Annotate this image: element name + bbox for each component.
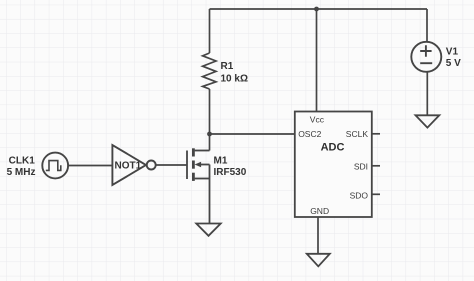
wire node to ADC OSC2 bbox=[210, 133, 295, 135]
svg-text:CLK1: CLK1 bbox=[9, 156, 36, 167]
ground below ADC bbox=[307, 254, 330, 266]
svg-text:V1: V1 bbox=[446, 47, 459, 58]
pin SDO stub bbox=[372, 193, 380, 195]
transistor M1 (NMOS IRF530) bbox=[187, 148, 210, 223]
svg-text:NOT1: NOT1 bbox=[115, 161, 142, 172]
node top rail to Vcc junction bbox=[314, 7, 319, 12]
svg-text:SCLK: SCLK bbox=[346, 129, 369, 139]
pin SCLK stub bbox=[372, 133, 380, 135]
svg-text:Vcc: Vcc bbox=[310, 115, 325, 125]
source V1 bbox=[411, 42, 441, 72]
svg-text:GND: GND bbox=[310, 206, 329, 216]
wire resistor top bbox=[209, 9, 211, 53]
svg-text:R1: R1 bbox=[221, 61, 234, 72]
ground below M1 bbox=[196, 224, 220, 236]
svg-text:SDO: SDO bbox=[350, 190, 369, 200]
wire V1 top bbox=[426, 9, 428, 42]
wire node to M1 drain bbox=[209, 134, 211, 151]
svg-text:M1: M1 bbox=[214, 156, 228, 167]
ground below V1 bbox=[416, 115, 440, 127]
wire Vcc pin bbox=[316, 9, 318, 112]
svg-text:5 V: 5 V bbox=[446, 58, 461, 69]
inverter NOT1 bbox=[112, 145, 146, 185]
op block ADC bbox=[295, 112, 372, 218]
svg-text:SDI: SDI bbox=[354, 161, 368, 171]
pin SDI stub bbox=[372, 165, 380, 167]
wire NOT1 to gate bbox=[156, 164, 187, 166]
wire top rail bbox=[210, 8, 428, 10]
resistor R1 bbox=[203, 53, 216, 89]
svg-text:10 kΩ: 10 kΩ bbox=[221, 74, 248, 85]
wire V1 bottom bbox=[426, 72, 428, 116]
wire ADC GND pin bbox=[317, 217, 319, 254]
wire resistor bottom to node bbox=[209, 89, 211, 134]
node junction at R1/M1/OSC2 bbox=[207, 132, 212, 137]
svg-text:5 MHz: 5 MHz bbox=[7, 167, 36, 178]
svg-text:IRF530: IRF530 bbox=[214, 167, 247, 178]
svg-text:OSC2: OSC2 bbox=[298, 129, 321, 139]
svg-text:ADC: ADC bbox=[321, 142, 345, 154]
clock source CLK1 bbox=[42, 153, 68, 179]
wire CLK1 to NOT1 bbox=[68, 165, 113, 167]
